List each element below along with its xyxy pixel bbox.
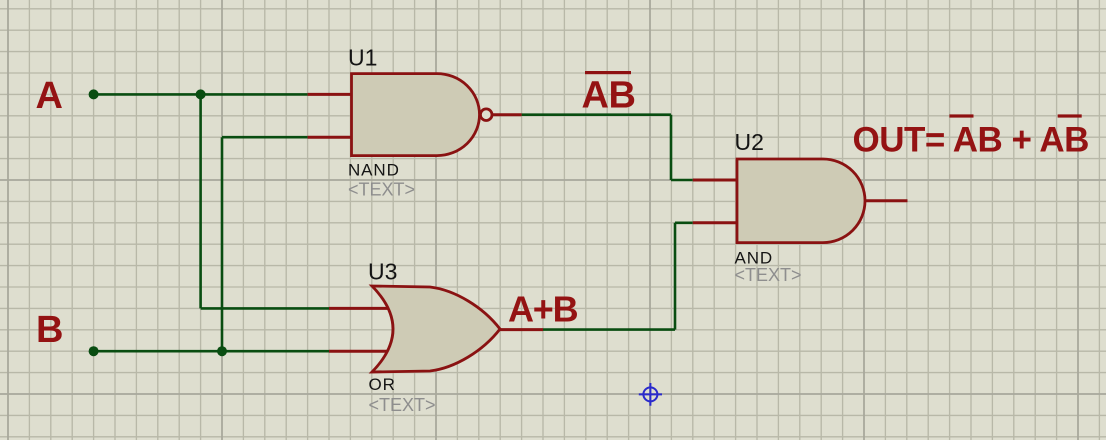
- junction: net B terminal dot: [89, 346, 99, 356]
- wire: U3 OR output vertical rise to U2 lower input row: [674, 223, 677, 330]
- svg-text:<TEXT>: <TEXT>: [369, 395, 436, 415]
- origin marker (blue crosshair): [639, 383, 662, 406]
- svg-text:NAND: NAND: [348, 161, 400, 180]
- wire: into U2 lower input: [675, 222, 693, 225]
- pin: U2 output stub (unconnected): [865, 199, 908, 202]
- overbar of last B in expression: [1058, 114, 1082, 117]
- junction: net A terminal dot: [89, 89, 99, 99]
- svg-text:U1: U1: [348, 45, 377, 71]
- wire: into U2 upper input: [671, 179, 693, 182]
- pin: U3 output stub: [500, 328, 543, 331]
- OR gate U3 body: [372, 286, 500, 372]
- svg-text:B: B: [36, 309, 63, 351]
- wire: U1 NAND output horizontal run: [522, 113, 671, 116]
- wire: U1 NAND output vertical drop to U2 upper input row: [670, 115, 673, 180]
- svg-text:OR: OR: [369, 375, 396, 394]
- wire: net B vertical rise at x=222 up to NAND input row: [221, 137, 224, 351]
- wire: net B horizontal from terminal to U3 lower input: [94, 350, 329, 353]
- svg-text:A+B: A+B: [508, 288, 578, 329]
- junction: net B branch dot: [217, 346, 227, 356]
- pin: U1 input 2 stub: [308, 136, 352, 139]
- pin: U2 input 2 stub: [693, 221, 737, 224]
- pin: U3 input 2 stub: [329, 350, 390, 353]
- pin: U1 output stub: [492, 113, 522, 116]
- svg-text:<TEXT>: <TEXT>: [735, 265, 802, 285]
- svg-text:U3: U3: [368, 259, 397, 285]
- overbar of first A in expression: [949, 114, 973, 117]
- pin: U1 input 1 stub: [308, 93, 352, 96]
- AND gate U2 body: [737, 159, 865, 243]
- svg-text:U2: U2: [735, 129, 764, 155]
- overbar of AB label: [585, 71, 631, 74]
- wire: net A horizontal from terminal to U1 input A: [94, 93, 308, 96]
- svg-text:AB: AB: [582, 75, 636, 117]
- junction: net A branch dot: [196, 89, 206, 99]
- svg-text:A: A: [36, 75, 63, 117]
- svg-text:OUT= AB + AB: OUT= AB + AB: [853, 121, 1089, 160]
- pin: U2 input 1 stub: [693, 179, 737, 182]
- NAND gate U1 body: [352, 74, 480, 156]
- pin: U3 input 1 stub: [329, 307, 390, 310]
- wire: U3 OR output horizontal run: [543, 328, 675, 331]
- svg-text:<TEXT>: <TEXT>: [348, 179, 415, 199]
- NAND gate U1 inversion bubble: [480, 109, 492, 121]
- wire: net B horizontal into U1 lower input: [222, 136, 308, 139]
- wire: net A horizontal into U3 upper input: [201, 307, 329, 310]
- wire: net A vertical drop at x=200 down to OR input row: [199, 94, 202, 308]
